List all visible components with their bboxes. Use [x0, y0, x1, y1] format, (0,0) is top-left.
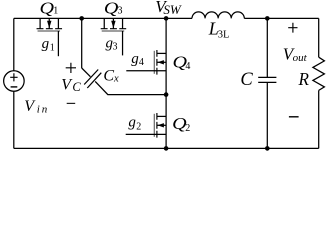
svg-text:C: C — [240, 70, 253, 90]
svg-text:x: x — [113, 74, 119, 85]
svg-text:out: out — [293, 52, 308, 64]
svg-text:C: C — [103, 68, 114, 85]
svg-text:C: C — [72, 80, 81, 94]
svg-text:R: R — [298, 68, 310, 89]
svg-text:3L: 3L — [218, 29, 230, 40]
svg-text:2: 2 — [136, 122, 141, 133]
svg-text:1: 1 — [50, 43, 55, 54]
svg-text:g: g — [128, 114, 136, 130]
svg-text:1: 1 — [53, 6, 58, 17]
svg-text:3: 3 — [113, 42, 118, 53]
svg-text:in: in — [37, 103, 49, 115]
svg-text:2: 2 — [185, 123, 190, 134]
svg-text:g: g — [42, 36, 50, 52]
svg-text:4: 4 — [139, 57, 144, 68]
svg-text:4: 4 — [185, 61, 190, 72]
svg-text:SW: SW — [163, 2, 182, 17]
svg-text:3: 3 — [118, 6, 123, 17]
